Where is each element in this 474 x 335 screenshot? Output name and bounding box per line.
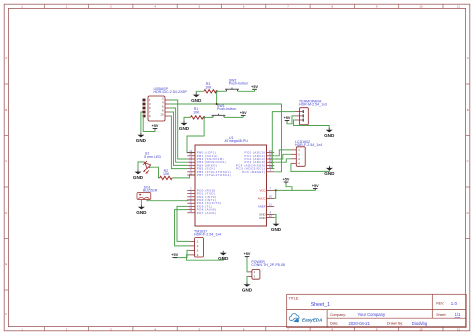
title block row line under company bbox=[327, 317, 466, 319]
push-button SW2 bbox=[225, 88, 239, 92]
svg-text:Push-button: Push-button bbox=[229, 81, 248, 85]
wire U1 GND pins to ground bbox=[274, 214, 276, 221]
+5V flag at SW1 bbox=[240, 111, 247, 115]
svg-text:Your Company: Your Company bbox=[358, 312, 386, 317]
USBASP left pin pads 1,3,5,7,9 bbox=[143, 99, 146, 118]
wire LCD pin4 to GND bbox=[291, 163, 330, 171]
svg-text:1/1: 1/1 bbox=[455, 312, 461, 317]
wire SW1 node to PB0 bbox=[187, 117, 204, 152]
svg-text:5 mm LED: 5 mm LED bbox=[144, 155, 161, 159]
wire TM1637 pin1 to PD5 bbox=[177, 206, 190, 241]
wire USBASP pin6 to PB3 bbox=[170, 108, 188, 162]
U1 right pin stubs bbox=[267, 153, 275, 218]
wire USBASP pin2 to PB2 bbox=[170, 100, 188, 159]
wire R1 left to GND bbox=[184, 117, 191, 121]
svg-text:21: 21 bbox=[269, 203, 272, 207]
LED U2 diode symbol bbox=[142, 160, 152, 170]
POWER CN1 body bbox=[252, 269, 260, 279]
USBASP right pin stubs bbox=[165, 100, 170, 116]
LCD1602 pin stubs bbox=[291, 150, 296, 163]
junction VCC AVCC bbox=[275, 189, 277, 191]
USBASP left pin numbers bbox=[149, 98, 151, 118]
wire junction to AVCC bbox=[274, 190, 276, 198]
TM1637 pin stubs bbox=[190, 241, 195, 255]
wire +5V to POWER pin1 bbox=[246, 259, 248, 272]
POWER pin numbers bbox=[254, 270, 256, 279]
LCD1602 pin numbers bbox=[298, 148, 300, 165]
wire SW2 right to +5V bbox=[238, 90, 255, 92]
wire USBASP pin8 to PB4 bbox=[170, 112, 188, 165]
svg-text:10: 10 bbox=[160, 113, 164, 117]
svg-text:D: D bbox=[467, 211, 469, 215]
svg-text:B: B bbox=[5, 108, 7, 112]
svg-text:11: 11 bbox=[457, 4, 460, 8]
resistor R3 bbox=[204, 90, 217, 93]
svg-text:F: F bbox=[5, 312, 7, 316]
wire SW1 right to +5V bbox=[224, 116, 243, 118]
border column ticks top bbox=[44, 4, 443, 8]
svg-text:D: D bbox=[5, 211, 7, 215]
svg-text:BUZZER: BUZZER bbox=[143, 189, 158, 193]
wire USBASP pin7 to GND bbox=[141, 112, 143, 133]
ground under TERMOPARA bbox=[324, 128, 335, 138]
ground under LED bbox=[133, 170, 144, 180]
wire buzzer left pin to GND bbox=[140, 200, 142, 205]
wire R2 right to PB7 bbox=[172, 175, 194, 178]
wire R3 junction to SW2 left pin bbox=[217, 90, 227, 92]
wire reset net USBASP pin4 to PC6 bbox=[170, 104, 282, 172]
U1 left pin numbers bbox=[189, 149, 192, 213]
wire TM1637 pin4 to GND bbox=[187, 255, 224, 260]
svg-text:AREF: AREF bbox=[258, 205, 266, 209]
svg-text:A: A bbox=[467, 56, 469, 60]
svg-text:HDR-IDC-2.54-2X5P: HDR-IDC-2.54-2X5P bbox=[154, 90, 188, 94]
wire R3 node down to reset net bbox=[216, 91, 218, 104]
+5V flag at TERMOPARA bbox=[284, 116, 291, 120]
USBASP right pin numbers bbox=[160, 97, 164, 117]
wire TERMOPARA pin1 to PC5 bbox=[272, 112, 295, 169]
border zone numbers top bbox=[21, 4, 460, 8]
svg-text:2020-04-21: 2020-04-21 bbox=[349, 321, 371, 326]
svg-text:GND: GND bbox=[259, 216, 265, 220]
push-button SW1 bbox=[212, 114, 226, 118]
svg-text:1.0: 1.0 bbox=[451, 301, 458, 306]
svg-text:Push-button: Push-button bbox=[217, 107, 236, 111]
U1 right pin numbers bbox=[269, 149, 272, 218]
title block divider rev column bbox=[431, 294, 433, 318]
wire POWER pin2 to GND bbox=[246, 276, 248, 282]
wire TM1637 pin3 to +5V bbox=[175, 250, 190, 257]
wire LCD pin1 to PC1 bbox=[274, 150, 291, 156]
wire VCC to +5V bbox=[274, 188, 315, 190]
TERMOPARA P1 body bbox=[299, 108, 308, 125]
svg-text:AVCC: AVCC bbox=[258, 197, 266, 201]
svg-text:VCC: VCC bbox=[259, 189, 265, 193]
TM1637 pin numbers bbox=[197, 240, 199, 258]
wire R3 left to GND bbox=[196, 91, 204, 92]
ground under U1 bbox=[271, 222, 282, 232]
wire USBASP pin10 to PB5 bbox=[170, 116, 188, 169]
junction R1 right / SW1 bbox=[203, 116, 205, 118]
svg-text:20: 20 bbox=[269, 195, 272, 199]
ground under USBASP bbox=[136, 133, 147, 143]
+5V flag at SW2 bbox=[251, 85, 258, 89]
TERMOPARA pin stubs bbox=[295, 112, 303, 120]
svg-text:EasyEDA: EasyEDA bbox=[302, 317, 322, 322]
wire LED cathode to GND bbox=[138, 162, 144, 170]
wire LCD pin3 to PC3 bbox=[274, 159, 291, 162]
ground right of LCD bbox=[324, 166, 335, 176]
svg-text:Drawn By:: Drawn By: bbox=[387, 322, 403, 326]
svg-text:10K: 10K bbox=[205, 85, 212, 89]
svg-text:REV:: REV: bbox=[436, 302, 444, 306]
junction reset net bbox=[216, 103, 218, 105]
wire LED anode to R2 bbox=[150, 167, 160, 178]
U1 left pin stubs bbox=[187, 153, 195, 213]
svg-text:HDR-F-2.54_1x4: HDR-F-2.54_1x4 bbox=[194, 233, 221, 237]
svg-text:Sheet_1: Sheet_1 bbox=[311, 302, 330, 308]
svg-text:A: A bbox=[5, 56, 7, 60]
svg-text:HDR-M-2.54_1x3: HDR-M-2.54_1x3 bbox=[299, 103, 327, 107]
svg-text:Diodvbg: Diodvbg bbox=[412, 321, 428, 326]
POWER pin stubs bbox=[247, 272, 252, 277]
LCD1602 P2 body bbox=[296, 147, 305, 167]
USBASP J1 body bbox=[148, 96, 165, 121]
svg-text:E: E bbox=[5, 262, 7, 266]
title block row line under title bbox=[287, 309, 467, 311]
svg-text:PC6 (RESET): PC6 (RESET) bbox=[242, 170, 266, 174]
buzzer SG1 body bbox=[137, 193, 151, 200]
ground left of R3 bbox=[191, 93, 202, 103]
ground under buzzer bbox=[136, 205, 147, 215]
svg-text:ATmega48-PU: ATmega48-PU bbox=[225, 139, 249, 143]
wire LCD pin2 to PC2 bbox=[274, 154, 291, 159]
wire +5V to TERMOPARA pin2 bbox=[287, 116, 295, 124]
svg-text:10: 10 bbox=[419, 4, 423, 8]
+5V flag under USBASP bbox=[152, 124, 159, 128]
wire +5V to USBASP pin9 bbox=[143, 116, 156, 132]
svg-text:22: 22 bbox=[269, 214, 272, 218]
border row ticks left and right bbox=[4, 84, 470, 290]
wire buzzer right pin to PD3 bbox=[147, 200, 195, 201]
wire TERMOPARA pin3 to GND bbox=[294, 120, 330, 129]
border column ticks bottom bbox=[44, 327, 443, 331]
title block divider logo cell bbox=[326, 310, 328, 328]
svg-text:TITLE:: TITLE: bbox=[289, 296, 300, 300]
EasyEDA logo cloud bbox=[289, 314, 299, 321]
border zone letters left bbox=[5, 56, 468, 316]
title block outline bbox=[287, 294, 467, 327]
svg-text:Company:: Company: bbox=[330, 313, 346, 317]
wire TM1637 pin2 to PD6 bbox=[175, 210, 190, 246]
svg-text:CONN-TH_2P-P5.08: CONN-TH_2P-P5.08 bbox=[251, 263, 284, 267]
junction R3 right / SW2 / reset bbox=[216, 90, 218, 92]
svg-text:C: C bbox=[467, 159, 469, 163]
ground left of R1 bbox=[179, 121, 190, 131]
+5V flag right bbox=[312, 184, 319, 188]
svg-text:13: 13 bbox=[189, 209, 192, 213]
svg-text:PD7 (AIN1): PD7 (AIN1) bbox=[197, 211, 217, 215]
U1 right pin names PC0-PC6 bbox=[236, 151, 266, 174]
+5V flag at TM1637 bbox=[171, 253, 178, 257]
ground right of TM1637 bbox=[218, 251, 229, 261]
resistor R2 bbox=[160, 176, 173, 179]
wire +5V jog to VCC rail bbox=[286, 184, 292, 190]
op-amp U1 body bbox=[195, 145, 267, 226]
resistor R1 bbox=[191, 116, 204, 119]
svg-text:PB7 (XTAL2TOSC2): PB7 (XTAL2TOSC2) bbox=[197, 173, 231, 177]
svg-text:B: B bbox=[467, 108, 469, 112]
svg-text:10: 10 bbox=[419, 327, 423, 331]
+5V flag near AVCC bbox=[283, 178, 290, 182]
+5V flag at POWER bbox=[244, 252, 251, 256]
svg-text:10: 10 bbox=[189, 171, 192, 175]
ground under POWER bbox=[242, 282, 253, 292]
svg-text:Date:: Date: bbox=[330, 322, 338, 326]
wire junction to SW1 left pin bbox=[204, 116, 213, 118]
svg-text:10K: 10K bbox=[193, 111, 200, 115]
TM1637 P3 body bbox=[195, 238, 204, 257]
U1 left pin names bbox=[197, 151, 231, 215]
svg-text:11: 11 bbox=[457, 327, 460, 331]
svg-text:C: C bbox=[5, 159, 7, 163]
svg-text:Sheet:: Sheet: bbox=[436, 313, 446, 317]
